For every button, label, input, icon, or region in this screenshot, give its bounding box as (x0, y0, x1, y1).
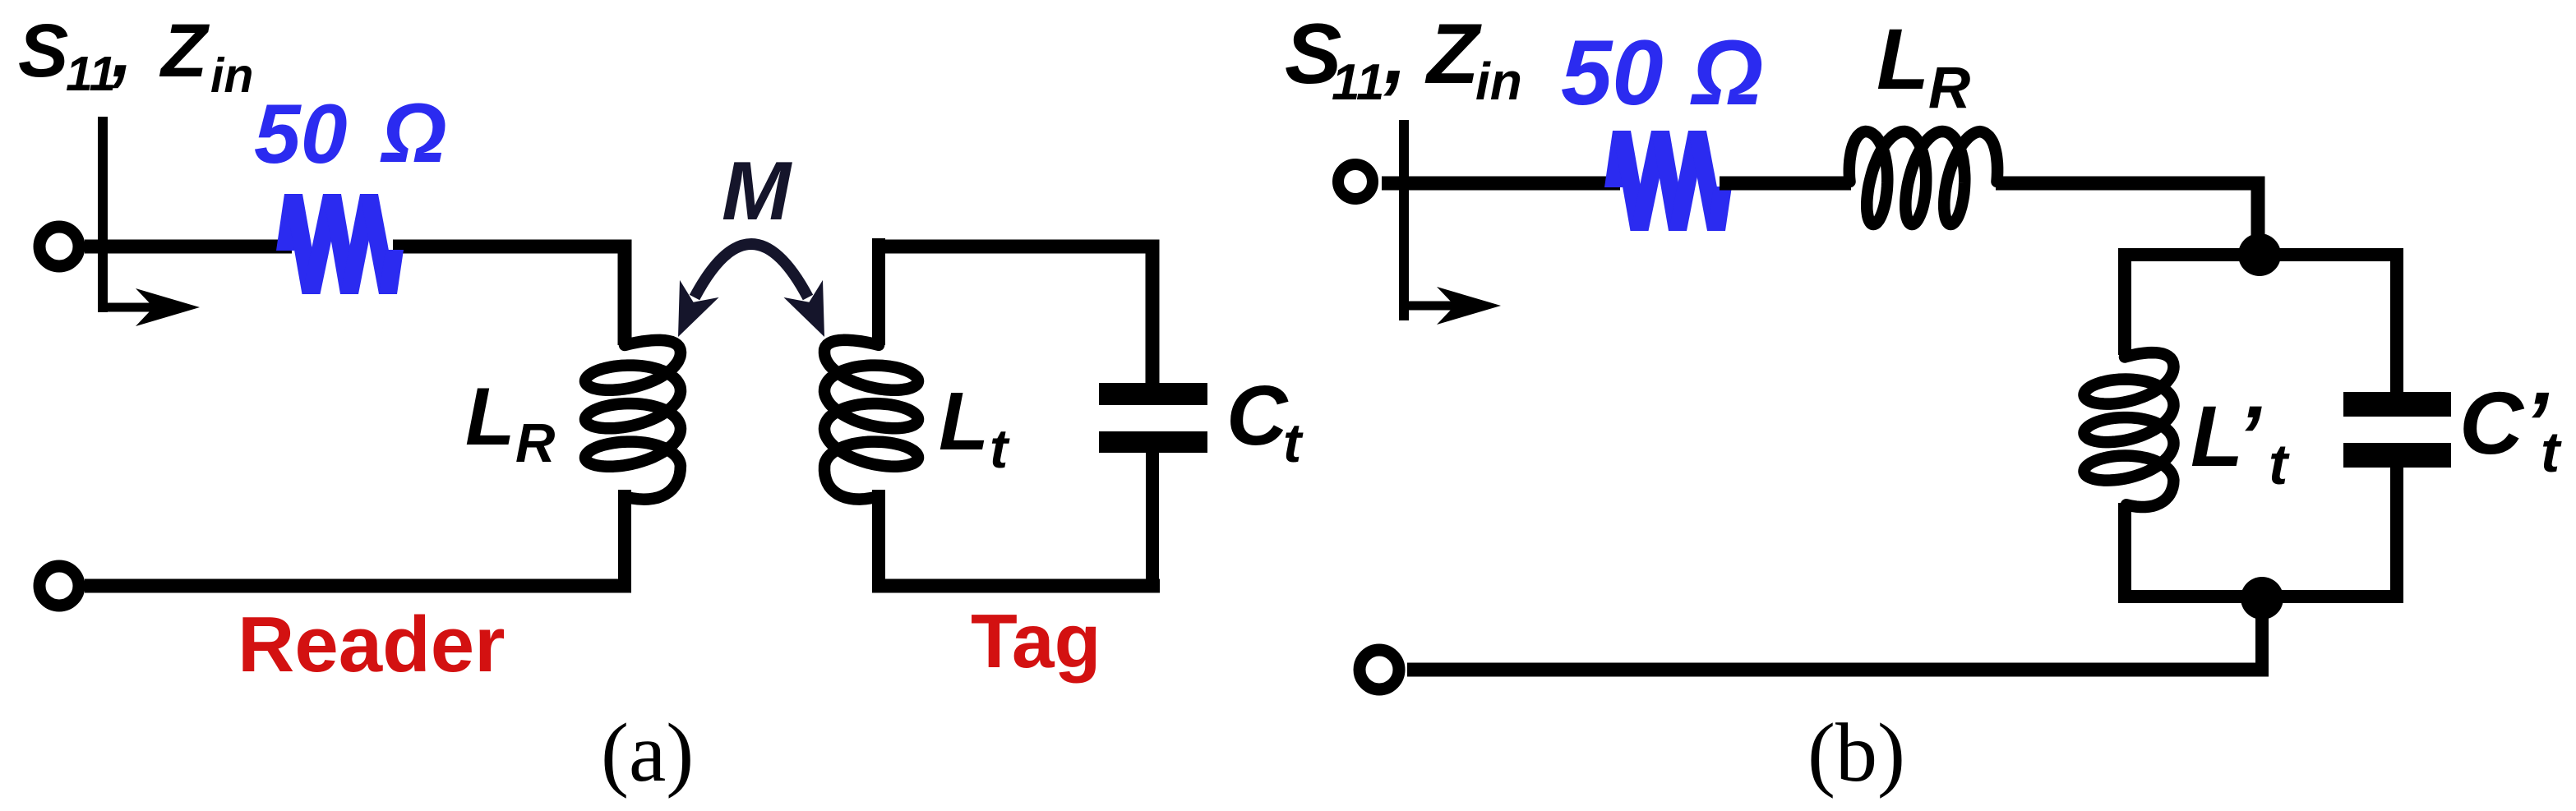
svg-text:Z: Z (1424, 7, 1482, 102)
svg-text:50: 50 (1561, 21, 1664, 124)
svg-text:Tag: Tag (971, 598, 1101, 684)
svg-text:(b): (b) (1807, 707, 1905, 799)
svg-text:C: C (1226, 368, 1289, 463)
svg-text:Ω: Ω (1690, 21, 1763, 124)
svg-text:S: S (18, 9, 68, 93)
svg-text:11: 11 (1332, 54, 1384, 111)
svg-text:,: , (1383, 9, 1407, 101)
svg-text:t: t (2541, 420, 2562, 484)
svg-text:50: 50 (254, 87, 347, 181)
svg-text:Reader: Reader (238, 601, 506, 689)
svg-text:L: L (939, 376, 989, 468)
svg-text:Z: Z (159, 9, 210, 93)
svg-text:Ω: Ω (380, 86, 447, 180)
svg-text:,: , (111, 9, 133, 93)
svg-text:(a): (a) (601, 707, 694, 799)
svg-text:L’: L’ (2191, 389, 2262, 485)
svg-text:t: t (1283, 412, 1304, 474)
svg-text:11: 11 (66, 47, 116, 101)
svg-text:in: in (210, 48, 253, 103)
svg-text:M: M (722, 145, 792, 237)
svg-text:C’: C’ (2459, 373, 2550, 472)
svg-text:in: in (1475, 52, 1522, 111)
svg-text:R: R (515, 412, 555, 474)
svg-text:t: t (990, 418, 1010, 480)
svg-text:t: t (2269, 432, 2290, 496)
svg-text:R: R (1928, 56, 1970, 121)
svg-text:L: L (465, 371, 515, 462)
svg-text:L: L (1877, 12, 1929, 108)
